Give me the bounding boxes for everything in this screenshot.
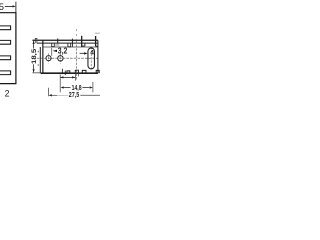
tab2 left side extension below bbox=[74, 73, 76, 80]
row1 dim line bbox=[60, 76, 75, 78]
right view bottom edge bbox=[41, 72, 98, 74]
slot 2 bbox=[0, 40, 11, 44]
svg-text:2: 2 bbox=[5, 89, 10, 99]
horizontal centerline bbox=[37, 57, 98, 59]
dim 14,8 right shaft bbox=[82, 87, 89, 89]
right view right edge bbox=[97, 40, 99, 73]
dim 14,8 right arrowhead bbox=[90, 86, 93, 88]
dim 27,5 left shaft dark part bbox=[52, 94, 58, 96]
dim 14,8 left shaft bbox=[64, 87, 71, 89]
tall pin at x82 bbox=[81, 36, 83, 47]
dim 27,5 left extension line bbox=[48, 88, 50, 97]
tab2 right side stub below bbox=[78, 73, 80, 76]
dim 9,5 arrowhead right bbox=[13, 5, 16, 7]
svg-text:4: 4 bbox=[90, 50, 94, 57]
row1 right arrowhead bbox=[72, 76, 75, 78]
hanging tab B bbox=[68, 43, 71, 47]
svg-text:27,5: 27,5 bbox=[69, 90, 80, 99]
tab right side at x85 bbox=[84, 43, 86, 46]
right view top line A bbox=[32, 39, 98, 41]
bottom tab 4 at right end bbox=[96, 70, 99, 73]
dim 18,5 bottom extension bbox=[32, 72, 40, 74]
faint smudge top right bbox=[95, 33, 100, 34]
dim 27,5 left shaft faint part bbox=[57, 94, 68, 96]
svg-text:5: 5 bbox=[0, 1, 4, 12]
vertical centerline circle 1 bbox=[48, 53, 50, 63]
hole circle 2 bbox=[58, 56, 63, 61]
dim 9,5 arrow shaft bbox=[5, 5, 13, 7]
tall pin at x95 bbox=[95, 36, 97, 46]
bottom tab 3 bbox=[82, 70, 86, 73]
dim 27,5 left arrowhead bbox=[49, 94, 52, 96]
vertical centerline tab2 bbox=[75, 29, 77, 39]
vertical centerline tab2 lower bbox=[75, 41, 77, 81]
slot 3 bbox=[0, 56, 11, 60]
oval slot bbox=[88, 48, 95, 69]
slot 4 bbox=[0, 71, 11, 75]
label 4 arrow shaft bbox=[80, 52, 84, 54]
bottom tab 2 bbox=[75, 70, 78, 73]
pin above line A at left bbox=[35, 38, 37, 43]
ghost shading right of tab A bbox=[55, 44, 59, 46]
hole circle 1 bbox=[46, 56, 51, 61]
dim 18,5 line lower bbox=[33, 64, 35, 72]
dim 18,5 up arrowhead bbox=[33, 41, 35, 44]
hidden edge dash lower at x38 bbox=[37, 64, 39, 66]
tab bottom cap x82-85 bbox=[82, 45, 85, 47]
right view inner line C bbox=[43, 46, 98, 48]
row1 left arrowhead bbox=[60, 76, 63, 78]
pin at x58 bbox=[57, 39, 59, 46]
vertical centerline circle 2 bbox=[59, 53, 61, 63]
right view left inner vertical bbox=[39, 47, 41, 73]
dim 18,5 down arrowhead bbox=[33, 69, 35, 72]
bottom tab 1 bbox=[67, 71, 70, 73]
row1/row2 left extension line bbox=[59, 74, 61, 92]
slot 1 bbox=[0, 26, 11, 30]
pin at x72 bbox=[71, 39, 73, 47]
right view left front edge bbox=[42, 40, 44, 73]
svg-text:3,2: 3,2 bbox=[58, 46, 68, 55]
label 4 arrowhead bbox=[84, 52, 88, 54]
dim 14,8 right extension line bbox=[92, 82, 94, 93]
dim 3,2 extension line bbox=[51, 48, 53, 56]
left view outer plate bbox=[0, 13, 16, 84]
dim 18,5 line upper bbox=[33, 41, 35, 49]
tab bottom cap x95-98 bbox=[96, 45, 98, 47]
hidden edge dash upper at x38 bbox=[37, 51, 39, 53]
hanging tab A bbox=[52, 43, 55, 47]
svg-text:18,5: 18,5 bbox=[31, 48, 38, 64]
dim 14,8 left arrowhead bbox=[61, 86, 64, 88]
dim 3,2 arrowhead left bbox=[53, 50, 57, 53]
bottom tab 0 side lines bbox=[61, 69, 63, 74]
extension line above left view right edge bbox=[15, 2, 17, 13]
dim 27,5 right shaft bbox=[80, 94, 100, 96]
vertical centerline oval bbox=[90, 47, 92, 71]
right view fold line B bbox=[37, 42, 98, 44]
